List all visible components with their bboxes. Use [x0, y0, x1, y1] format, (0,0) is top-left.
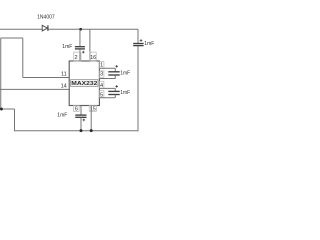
svg-text:1mF: 1mF	[144, 41, 154, 47]
svg-text:3: 3	[100, 72, 103, 78]
node dot on VCC rail	[79, 28, 82, 31]
capacitor C3 1mF between pins 4 and 5	[108, 91, 119, 94]
pin box 6	[73, 105, 79, 111]
plus sign of C5	[140, 39, 143, 42]
wire pin 1 horizontal	[99, 67, 115, 69]
svg-text:1mF: 1mF	[120, 71, 130, 77]
wire top VCC rail left segment	[0, 28, 42, 30]
wire pin 1 elbow down	[114, 68, 116, 71]
wire pin 15 drop	[90, 105, 92, 130]
pin box 3	[99, 71, 104, 78]
svg-text:1mF: 1mF	[120, 90, 130, 96]
capacitor C1 1mF at pin 2	[75, 47, 85, 49]
wire pin2 cap drop lower	[79, 49, 81, 61]
svg-text:16: 16	[90, 55, 96, 61]
node dot left	[0, 108, 3, 111]
wire right rail lower (C5 bottom to bottom rail)	[137, 46, 139, 131]
plus sign of C1	[82, 51, 85, 54]
svg-text:1mF: 1mF	[57, 113, 67, 119]
svg-text:1mF: 1mF	[62, 44, 72, 50]
pin box 15	[89, 105, 96, 111]
node dot pin6 cap to ground rail	[80, 129, 83, 132]
wire far-left vertical	[0, 38, 2, 109]
wire pin 4 elbow down	[114, 88, 116, 91]
pin box 16	[90, 52, 97, 61]
svg-text:MAX232: MAX232	[71, 81, 97, 87]
plus sign of C3	[115, 85, 118, 88]
capacitor C4 1mF at pin 6	[75, 115, 86, 117]
svg-text:6: 6	[75, 107, 78, 113]
wire bottom ground rail	[15, 130, 139, 132]
wire pin 11 horizontal	[23, 77, 69, 79]
capacitor C5 1mF top-right	[133, 44, 143, 46]
pin box 2	[74, 52, 81, 61]
wire left vertical to pin 11	[22, 38, 24, 78]
wire pin 4 horizontal	[99, 87, 115, 89]
wire pin 5 stub from cap	[114, 95, 116, 98]
IC U1 label box MAX232	[71, 80, 98, 87]
wire left upper horizontal (to pin 11 path)	[1, 37, 23, 39]
capacitor C2 1mF between pins 1 and 3	[108, 72, 119, 75]
node dot pin15 to ground rail	[90, 129, 93, 132]
wire node-to-ground elbow horizontal	[1, 108, 15, 110]
pin box 5	[99, 91, 104, 98]
wire pin 6 drop upper	[80, 105, 82, 115]
wire node-to-ground elbow vertical	[14, 109, 16, 131]
wire pin 6 drop lower	[80, 118, 82, 131]
pin box 4	[99, 81, 104, 88]
plus sign of C4	[83, 119, 86, 122]
svg-text:2: 2	[75, 55, 78, 61]
wire pin 3 stub from cap	[114, 75, 116, 78]
plus sign of C2	[115, 65, 118, 68]
wire right rail upper (to cap C5 top)	[137, 29, 139, 43]
diode D1 1N4007	[42, 25, 48, 31]
wire pin16 drop	[89, 29, 91, 61]
wire pin 5 horizontal	[99, 97, 115, 99]
svg-text:14: 14	[61, 84, 67, 90]
IC U1 body	[69, 61, 99, 106]
svg-text:11: 11	[61, 71, 67, 77]
svg-text:1N4007: 1N4007	[37, 15, 55, 21]
pin box 1	[99, 61, 104, 68]
svg-text:1: 1	[100, 63, 103, 69]
wire pin2 cap drop upper	[79, 29, 81, 46]
wire pin 3 horizontal	[99, 78, 115, 80]
wire top VCC rail right segment	[48, 28, 138, 30]
wire pin 14 horizontal	[0, 88, 69, 90]
